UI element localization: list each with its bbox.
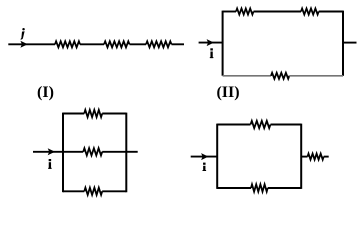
wire : top edge right segment of circuit III <box>102 113 126 115</box>
wire : top edge left segment of circuit II <box>223 11 236 13</box>
wire : top edge right segment of circuit II <box>319 11 343 13</box>
resistor : first resistor on top branch of circuit II <box>236 9 254 15</box>
resistor on top branch of circuit III <box>84 110 102 117</box>
wire : output lead of circuit I <box>172 43 185 45</box>
wire : input lead of circuit III <box>33 151 63 153</box>
wire : top edge right segment of circuit IV <box>271 124 302 126</box>
label i : current of circuit I <box>22 28 25 30</box>
wire : top edge left segment of circuit IV <box>217 124 250 126</box>
resistor on bottom branch of circuit IV <box>251 184 268 191</box>
resistor R2 of circuit I <box>104 41 130 47</box>
resistor on bottom branch of circuit III <box>84 188 102 195</box>
wire : top edge left segment of circuit III <box>63 113 84 115</box>
wire : output lead left segment of circuit IV <box>301 156 307 158</box>
label i : current of circuit IV <box>203 163 206 165</box>
wire : input lead of circuit IV <box>191 156 218 158</box>
wire : bottom edge left segment of circuit IV <box>217 187 251 189</box>
wire : left edge of circuit II <box>222 11 224 76</box>
wire : bottom edge left segment of circuit III <box>63 190 84 192</box>
arrowhead : current direction i in circuit IV <box>201 153 208 160</box>
svg-text:(I): (I) <box>37 84 54 101</box>
resistor : second resistor on top branch of circuit II <box>301 9 319 15</box>
wire : left edge of circuit III <box>62 113 64 193</box>
wire between R2 and R3 <box>130 43 147 45</box>
svg-text:(II): (II) <box>216 84 239 101</box>
arrowhead : current direction i in circuit I <box>20 41 27 48</box>
resistor on middle branch of circuit III <box>83 148 102 155</box>
wire between R1 and R2 <box>80 43 104 45</box>
wire : right edge of circuit II <box>342 11 344 76</box>
wire : input lead of circuit II <box>199 42 223 44</box>
resistor R1 of circuit I <box>55 41 80 47</box>
wire : bottom edge right segment of circuit III <box>102 190 126 192</box>
wire : bottom edge right segment of circuit II <box>289 75 343 77</box>
label i : current of circuit II <box>210 48 213 50</box>
wire : output lead right segment of circuit IV <box>324 156 329 158</box>
wire : bottom edge right segment of circuit IV <box>268 187 302 189</box>
wire : middle branch left segment of circuit III <box>63 151 83 153</box>
arrowhead : current direction i in circuit III <box>48 148 55 155</box>
label i : current of circuit III <box>49 159 52 161</box>
wire : right edge of circuit III <box>125 113 127 193</box>
resistor R3 of circuit I <box>146 41 172 47</box>
wire : input lead of circuit I <box>8 43 55 45</box>
resistor on top branch of circuit IV <box>251 121 271 128</box>
wire : bottom edge left segment of circuit II <box>223 75 271 77</box>
wire : left edge of circuit IV <box>216 124 218 189</box>
resistor in series on output of circuit IV <box>308 154 324 160</box>
wire : right edge of circuit IV <box>300 124 302 189</box>
wire : output lead of circuit III <box>126 151 137 153</box>
wire : output lead of circuit II <box>343 42 357 44</box>
wire : top edge middle segment of circuit II <box>254 11 302 13</box>
resistor on bottom branch of circuit II <box>271 73 289 79</box>
wire : middle branch right segment of circuit III <box>102 151 126 153</box>
arrowhead : current direction i in circuit II <box>207 39 214 46</box>
